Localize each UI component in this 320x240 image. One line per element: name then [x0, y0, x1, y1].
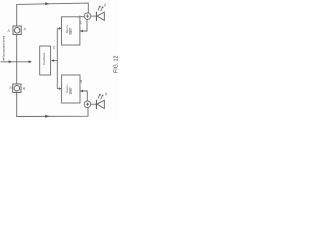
svg-text:Bewegungsrichtung: Bewegungsrichtung	[3, 35, 6, 58]
svg-text:Oszillator: Oszillator	[42, 52, 46, 65]
svg-text:21: 21	[52, 45, 56, 49]
svg-text:FIG. 12: FIG. 12	[114, 55, 120, 72]
svg-text:ILED2: ILED2	[71, 87, 73, 94]
svg-text:ILED1: ILED1	[71, 28, 73, 35]
